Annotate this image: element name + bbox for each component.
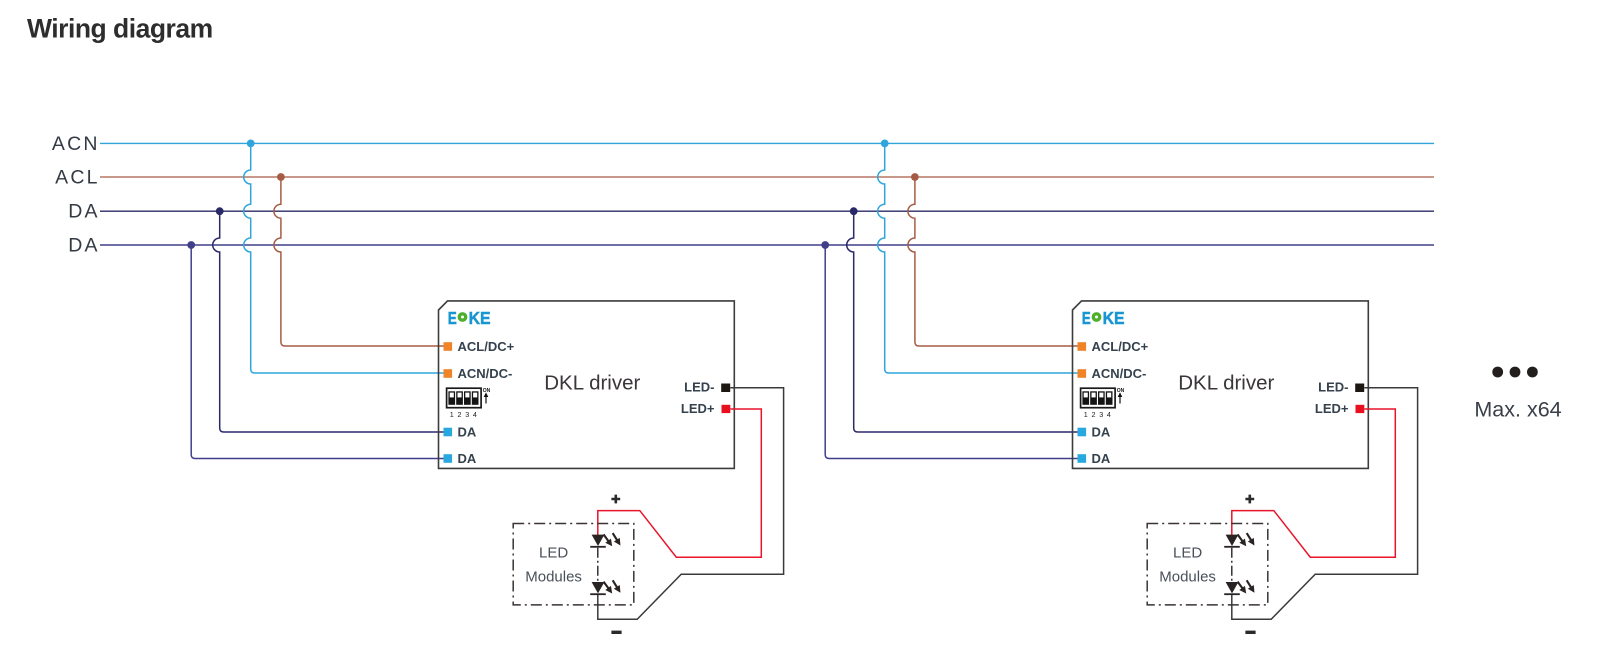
svg-text:ACL/DC+: ACL/DC+ xyxy=(458,339,515,354)
svg-text:Max. x64: Max. x64 xyxy=(1474,398,1561,422)
svg-text:E: E xyxy=(448,308,457,328)
svg-text:LED+: LED+ xyxy=(681,401,715,416)
svg-text:ACN/DC-: ACN/DC- xyxy=(458,366,513,381)
svg-text:DA: DA xyxy=(68,235,100,257)
svg-text:3: 3 xyxy=(465,410,469,419)
svg-text:KE: KE xyxy=(469,308,491,328)
svg-text:4: 4 xyxy=(473,410,477,419)
svg-text:Wiring diagram: Wiring diagram xyxy=(27,14,213,44)
svg-text:Modules: Modules xyxy=(525,569,582,586)
svg-text:ON: ON xyxy=(483,388,491,394)
svg-text:ACN: ACN xyxy=(52,133,100,155)
svg-text:ACL: ACL xyxy=(55,167,100,189)
svg-text:DA: DA xyxy=(458,425,477,440)
svg-text:2: 2 xyxy=(458,410,462,419)
svg-text:LED-: LED- xyxy=(684,380,714,395)
svg-text:DKL driver: DKL driver xyxy=(544,372,640,395)
svg-text:1: 1 xyxy=(450,410,454,419)
svg-text:DA: DA xyxy=(458,451,477,466)
svg-text:LED: LED xyxy=(539,545,568,562)
svg-text:DA: DA xyxy=(68,201,100,223)
